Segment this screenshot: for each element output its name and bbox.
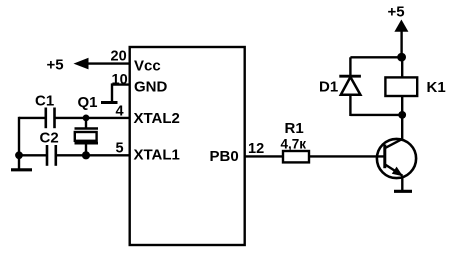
svg-text:+5: +5	[47, 57, 64, 74]
wire collector up	[401, 115, 403, 140]
resistor R1	[283, 151, 309, 162]
wire diode cathode	[349, 57, 351, 76]
capacitor C1	[46, 108, 55, 129]
svg-text:XTAL2: XTAL2	[134, 110, 180, 127]
svg-text:Q1: Q1	[78, 94, 98, 111]
wire relay bottom	[401, 96, 403, 115]
node junction crystal top	[83, 115, 90, 122]
svg-text:20: 20	[111, 49, 127, 65]
wire left vertical bus	[18, 117, 20, 156]
wire to +5 arrow	[400, 31, 402, 58]
svg-text:C1: C1	[35, 93, 54, 110]
wire Vcc pin 20	[87, 62, 130, 64]
svg-text:+5: +5	[388, 4, 405, 21]
wire GND pin 10	[112, 85, 130, 102]
+5 arrow left	[74, 58, 89, 70]
wire relay top	[401, 57, 403, 77]
wire R1 to base	[309, 155, 385, 157]
crystal Q1	[75, 118, 99, 155]
node junction left	[15, 151, 23, 159]
node junction crystal bottom	[82, 151, 90, 159]
ground left	[11, 168, 32, 171]
wire XTAL1 to IC	[56, 154, 130, 156]
ground at GND pin	[101, 101, 118, 104]
ground at emitter	[394, 190, 412, 193]
wire XTAL2 pin 4 row	[19, 117, 46, 119]
+5 arrow up	[394, 20, 408, 32]
wire XTAL2 to IC	[55, 117, 130, 119]
svg-text:R1: R1	[285, 120, 304, 137]
wire top parallel	[350, 56, 401, 58]
wire to left ground	[18, 155, 20, 168]
relay K1	[385, 77, 417, 96]
wire XTAL1 pin 5 row	[19, 154, 47, 156]
svg-text:PB0: PB0	[210, 148, 239, 165]
svg-text:Vcc: Vcc	[134, 58, 161, 75]
diode D1	[339, 76, 361, 95]
svg-text:C2: C2	[40, 130, 59, 147]
svg-text:12: 12	[248, 141, 264, 157]
transistor Q2	[377, 139, 416, 178]
capacitor C2	[47, 145, 56, 166]
node junction top right	[397, 53, 406, 62]
wire emitter down	[401, 176, 403, 191]
svg-text:4,7к: 4,7к	[281, 137, 307, 152]
wire diode anode	[349, 95, 351, 117]
svg-text:GND: GND	[134, 79, 168, 96]
node junction bottom right	[398, 111, 406, 119]
wire PB0 pin 12	[245, 155, 283, 157]
svg-text:D1: D1	[319, 79, 338, 96]
svg-text:XTAL1: XTAL1	[134, 147, 180, 164]
microcontroller IC body	[130, 47, 245, 245]
svg-text:K1: K1	[427, 79, 446, 96]
wire bottom parallel	[350, 114, 402, 116]
